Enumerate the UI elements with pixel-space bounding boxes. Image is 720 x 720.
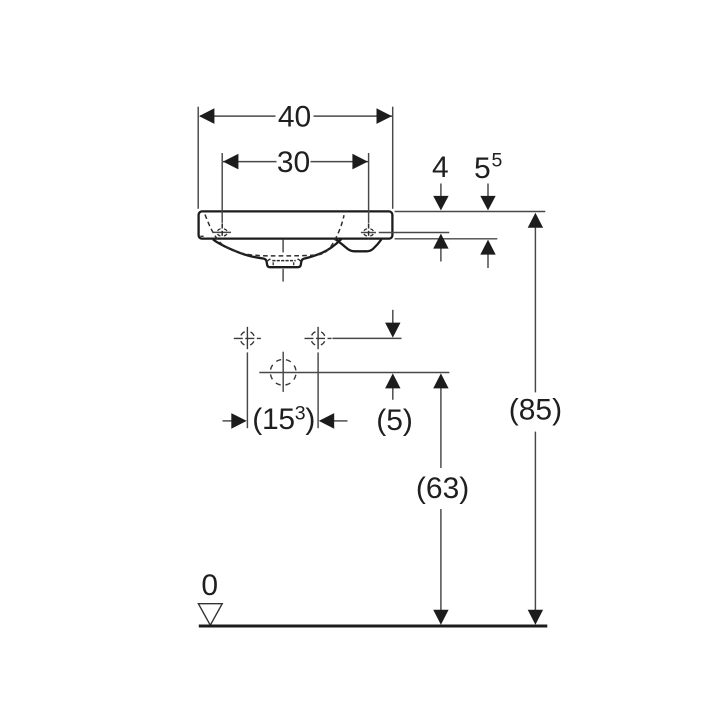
svg-text:(63): (63) (416, 472, 469, 505)
svg-text:30: 30 (277, 146, 310, 179)
svg-text:0: 0 (201, 569, 218, 602)
svg-text:(85): (85) (509, 393, 562, 426)
svg-text:(153): (153) (252, 402, 315, 436)
svg-text:5: 5 (474, 152, 491, 185)
svg-text:4: 4 (432, 151, 449, 184)
svg-text:5: 5 (492, 150, 503, 172)
svg-text:(5): (5) (376, 404, 413, 437)
svg-text:40: 40 (278, 101, 311, 134)
